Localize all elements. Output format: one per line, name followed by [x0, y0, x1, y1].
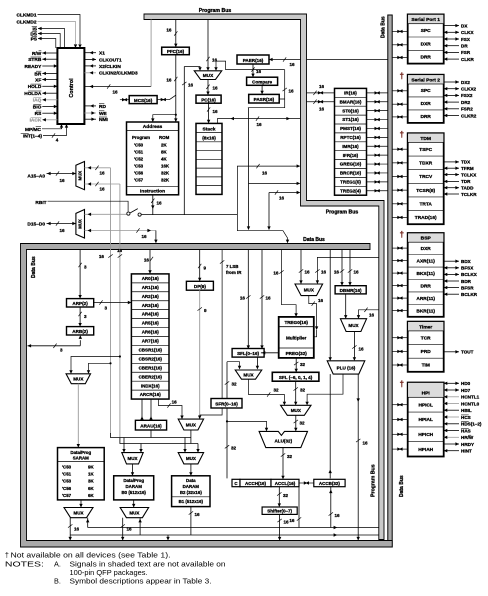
svg-text:HPI: HPI — [422, 391, 431, 397]
mux SARAM output MUX — [64, 508, 93, 518]
svg-text:3K: 3K — [88, 479, 94, 484]
signal XF — [42, 79, 57, 81]
svg-text:INT(1–4): INT(1–4) — [23, 133, 42, 139]
signal RS — [42, 112, 57, 114]
wire B0 mux to B0 — [132, 464, 134, 475]
svg-text:16: 16 — [266, 296, 272, 301]
wire shifter drop to bottom band — [279, 535, 281, 540]
svg-text:9K: 9K — [88, 464, 94, 469]
svg-text:'C57: 'C57 — [134, 178, 144, 183]
svg-text:TCSR(8): TCSR(8) — [416, 188, 435, 194]
svg-text:16: 16 — [99, 187, 105, 192]
svg-text:16: 16 — [256, 122, 262, 127]
block Serial Port 2 — [408, 75, 444, 123]
wire data bus to AR file (16) — [149, 250, 151, 274]
svg-text:RD: RD — [99, 104, 106, 110]
register MCS(16) — [129, 96, 157, 104]
svg-text:CBER2(16): CBER2(16) — [139, 374, 163, 379]
svg-text:BFSR: BFSR — [461, 285, 474, 290]
svg-text:16: 16 — [318, 298, 324, 303]
svg-text:32: 32 — [300, 362, 306, 367]
svg-text:'C52: 'C52 — [134, 157, 144, 162]
svg-text:3: 3 — [105, 306, 108, 311]
wire mux to PLU (16) — [353, 332, 355, 360]
svg-text:4: 4 — [56, 138, 59, 143]
svg-text:3: 3 — [60, 348, 63, 353]
svg-text:AR1(16): AR1(16) — [142, 285, 160, 290]
svg-text:HRDY: HRDY — [461, 442, 474, 447]
svg-text:TCR: TCR — [421, 335, 431, 341]
svg-text:FSX: FSX — [461, 37, 471, 42]
svg-text:AR6(16): AR6(16) — [142, 330, 160, 335]
wire program bus to MUX (16) — [207, 20, 209, 71]
svg-text:ST1(16): ST1(16) — [342, 117, 359, 122]
svg-text:CLKX: CLKX — [461, 30, 474, 35]
wire Instruction output (16) — [152, 195, 154, 215]
alu ARAU(16) — [135, 420, 166, 430]
svg-text:Control: Control — [69, 78, 75, 98]
svg-text:TDX: TDX — [461, 160, 471, 165]
svg-text:16: 16 — [262, 171, 268, 176]
wire PFC down to Address (16) — [175, 55, 177, 122]
svg-text:MCS(16): MCS(16) — [134, 98, 153, 103]
svg-text:'C51: 'C51 — [134, 150, 144, 155]
wire drops into B0 mux — [123, 438, 125, 452]
wire data bus drop to TREG0 (16) — [282, 250, 297, 317]
svg-text:Data Bus: Data Bus — [399, 475, 405, 497]
svg-text:PMST(16): PMST(16) — [340, 126, 361, 131]
svg-text:32K: 32K — [161, 178, 170, 183]
signals BSP: BDX BFSX BCLKX BDR BFSR BCLKR — [444, 260, 459, 262]
svg-text:DP(9): DP(9) — [194, 284, 206, 289]
svg-text:16: 16 — [144, 258, 150, 263]
svg-text:HCNTL1: HCNTL1 — [461, 395, 480, 400]
svg-text:16: 16 — [319, 107, 325, 112]
svg-text:DARAM: DARAM — [183, 484, 200, 489]
svg-text:32K: 32K — [161, 171, 170, 176]
svg-text:16: 16 — [279, 196, 285, 201]
bus CPU ring: left Data Bus band, top band, bottom band — [21, 244, 393, 548]
svg-text:FSR2: FSR2 — [461, 107, 473, 112]
wire ARAU output — [150, 430, 152, 438]
wire B2 mux to B2 — [190, 464, 192, 475]
signal NMI — [84, 118, 96, 120]
register SFL(0-16) — [232, 349, 264, 358]
svg-text:MP/MC: MP/MC — [25, 127, 42, 133]
svg-text:TIM: TIM — [422, 363, 430, 369]
svg-text:16: 16 — [289, 518, 295, 523]
wire XMUX data input 1 to switch (shaded) — [85, 213, 127, 215]
wire ACC output down (16) — [298, 487, 300, 528]
svg-text:IMR(16): IMR(16) — [342, 144, 359, 149]
wire SFL(-6,0,1,4) to ALU mux (32) — [295, 381, 297, 404]
block Address / Program ROM table — [127, 122, 179, 195]
svg-text:HD0: HD0 — [461, 381, 471, 386]
svg-text:CLKMD2: CLKMD2 — [17, 19, 37, 25]
wire DP down to data RAM mux (9) — [199, 290, 201, 418]
svg-text:7 LSB: 7 LSB — [226, 264, 238, 269]
svg-text:HCNTL0: HCNTL0 — [461, 401, 480, 406]
svg-text:BKR(11): BKR(11) — [416, 308, 435, 314]
svg-text:HPICH: HPICH — [418, 432, 433, 438]
wire address distribution line A — [111, 433, 191, 438]
svg-text:A.: A. — [54, 559, 61, 568]
svg-text:†: † — [400, 380, 405, 389]
svg-text:BR: BR — [34, 71, 41, 77]
svg-text:'C57: 'C57 — [62, 493, 72, 498]
wire PLU column down to bottom data bus (16) — [357, 374, 359, 540]
wire PC to Stack (16) — [208, 103, 210, 122]
svg-text:ARR(11): ARR(11) — [416, 296, 435, 302]
block TREG0 / Multiplier / PREG — [279, 317, 314, 358]
svg-text:X2/CLKIN: X2/CLKIN — [99, 64, 121, 70]
svg-text:'C51: 'C51 — [62, 472, 72, 477]
svg-text:HPIAH: HPIAH — [418, 447, 433, 453]
svg-text:DRR: DRR — [420, 55, 431, 61]
svg-text:16: 16 — [305, 270, 311, 275]
svg-text:TOUT: TOUT — [461, 350, 474, 355]
svg-text:BMAR(16): BMAR(16) — [340, 99, 362, 104]
svg-text:DXR: DXR — [421, 246, 432, 252]
svg-text:BKX(11): BKX(11) — [416, 271, 435, 277]
svg-text:STRB: STRB — [28, 57, 42, 63]
memory Data/Prog SARAM table — [58, 448, 105, 500]
svg-text:SFL(0–16): SFL(0–16) — [237, 351, 259, 356]
signal X1 — [84, 52, 96, 54]
mux XMUX (data) — [76, 210, 85, 239]
svg-text:ACCH(16): ACCH(16) — [245, 481, 267, 486]
svg-text:PLU (16): PLU (16) — [337, 366, 356, 371]
wire program bus to mux (16) — [359, 310, 379, 318]
svg-text:DRR: DRR — [420, 283, 431, 289]
svg-text:PRD: PRD — [421, 349, 432, 355]
svg-text:ARP(2): ARP(2) — [72, 301, 88, 306]
svg-text:Not available on all devices (: Not available on all devices (see Table … — [11, 550, 171, 559]
svg-text:NOTES:: NOTES: — [5, 559, 44, 568]
svg-text:'C56: 'C56 — [62, 486, 72, 491]
svg-text:HBIL: HBIL — [461, 408, 472, 413]
wire ARP to ARB (3) — [79, 307, 81, 326]
svg-text:16: 16 — [166, 28, 172, 33]
svg-text:TRCV: TRCV — [419, 174, 433, 180]
register PASR(16) — [249, 94, 280, 103]
register PFC(16) — [162, 47, 190, 55]
wire data bus to DP (9) — [199, 250, 201, 281]
svg-text:AR4(16): AR4(16) — [142, 312, 160, 317]
mux ALU input MUX — [281, 405, 311, 415]
svg-text:SARAM: SARAM — [73, 455, 89, 460]
svg-text:MUX: MUX — [186, 456, 196, 461]
svg-text:16: 16 — [363, 441, 369, 446]
block Stack (8x16) — [196, 123, 222, 194]
mux B2 address mux — [178, 453, 203, 464]
wire Shifter output to write bus (16) — [279, 514, 281, 535]
svg-text:HOLD: HOLD — [28, 84, 42, 90]
svg-text:SPC: SPC — [421, 28, 431, 34]
svg-text:TRAD(16): TRAD(16) — [415, 215, 437, 221]
wire data bus drop to SFL(0-16) (16) — [247, 250, 249, 349]
wire 7 LSB from IR to data address mux — [200, 250, 222, 416]
svg-text:'C53: 'C53 — [134, 164, 144, 169]
signal RD — [84, 105, 96, 107]
signal IACK (shaded) — [42, 119, 57, 121]
wire data bus drop to DBMR b (16) — [349, 250, 351, 285]
wire ARP to AR file (3) — [94, 302, 131, 304]
wire SFR junction to ALU left input — [227, 421, 267, 430]
svg-text:PC(16): PC(16) — [201, 97, 216, 102]
svg-text:DRR: DRR — [420, 114, 431, 120]
svg-text:1K: 1K — [88, 472, 94, 477]
svg-text:TDM: TDM — [420, 136, 431, 142]
bus Program Bus (top bar, left drop, mid wrap, right vertical) — [144, 14, 384, 540]
svg-text:Instruction: Instruction — [140, 189, 165, 195]
svg-text:'C50: 'C50 — [134, 143, 144, 148]
svg-text:16: 16 — [99, 171, 105, 176]
svg-text:Program: Program — [132, 135, 150, 140]
svg-text:ARAU(16): ARAU(16) — [140, 424, 162, 429]
svg-text:16: 16 — [289, 89, 295, 94]
svg-text:8K: 8K — [161, 150, 167, 155]
svg-text:16: 16 — [166, 78, 172, 83]
svg-text:ARCR(16): ARCR(16) — [140, 392, 162, 397]
svg-text:DXR: DXR — [421, 101, 432, 107]
svg-text:6K: 6K — [88, 486, 94, 491]
wire ALU to ACC (32) — [282, 448, 284, 479]
svg-text:Stack: Stack — [202, 126, 215, 132]
svg-text:ACCB(32): ACCB(32) — [319, 481, 341, 486]
svg-text:Compare: Compare — [252, 79, 272, 84]
svg-text:TRTA: TRTA — [419, 201, 432, 207]
memory Data DARAM B2/B1 — [172, 476, 210, 507]
svg-text:GREG(16): GREG(16) — [340, 162, 362, 167]
svg-text:DX2: DX2 — [461, 80, 470, 85]
svg-text:TDXR: TDXR — [419, 161, 433, 167]
svg-text:HPIAL: HPIAL — [418, 417, 432, 423]
svg-text:SPC: SPC — [421, 88, 431, 94]
svg-text:R/W: R/W — [32, 51, 42, 57]
svg-text:3: 3 — [84, 265, 87, 270]
wire ARB to data bus (3) — [28, 345, 81, 347]
signal WE (shaded wire) — [84, 112, 96, 114]
signal HOLD — [42, 85, 57, 87]
wire PASR feedback loop (right vertical + bottom) — [248, 70, 285, 108]
wire SFL(0-16) to mux (right input) — [256, 357, 258, 369]
svg-text:Data/Prog: Data/Prog — [70, 450, 91, 455]
wires data bus to peripherals (double arrows) — [392, 30, 408, 32]
svg-text:A15–A0: A15–A0 — [27, 173, 45, 179]
mux B0 output MUX — [120, 508, 148, 518]
svg-text:TADD: TADD — [461, 186, 474, 191]
signals Serial Port 2: DX2 CLKX2 FSX2 DR2 FSR2 CLKR2 — [444, 81, 459, 83]
svg-text:HD7: HD7 — [461, 388, 471, 393]
svg-text:TREG1(5): TREG1(5) — [340, 179, 361, 184]
register ARP(2) — [67, 299, 94, 307]
wire instruction to data bus band (lower path) — [237, 215, 287, 243]
svg-text:HCS: HCS — [461, 415, 471, 420]
wire data bus drop to SFL(0-16) right (16) — [261, 250, 263, 349]
bus Data Bus (right vertical bar) — [388, 15, 392, 547]
svg-text:BSP: BSP — [421, 236, 432, 242]
svg-text:TDR: TDR — [461, 179, 471, 184]
svg-text:Serial Port 2: Serial Port 2 — [411, 77, 440, 83]
svg-text:MUX: MUX — [78, 171, 83, 181]
wire TREG mux output to Multiplier (16) — [309, 296, 317, 330]
wire data bus to PLU left input — [329, 250, 331, 360]
wire write bus up into B0 mux — [139, 518, 141, 535]
svg-text:from IR: from IR — [226, 270, 242, 275]
wire program bus to TREG mux input 2 (16) — [317, 257, 378, 283]
svg-text:4K: 4K — [161, 157, 167, 162]
wire XMUX addr input 1 (shaded) — [85, 167, 111, 169]
svg-text:AR7(16): AR7(16) — [142, 339, 160, 344]
register SFR(0-16) — [211, 399, 242, 409]
signal IAQ (shaded) — [42, 99, 57, 101]
mux SFL mux — [235, 370, 262, 379]
wire program bus to IR (16) — [307, 92, 335, 94]
block TDM serial port — [408, 133, 444, 224]
wire SFL mux output to ALU mux (32) — [249, 379, 285, 404]
svg-text:ACCL(16): ACCL(16) — [275, 481, 296, 486]
svg-text:Data: Data — [186, 478, 196, 483]
svg-text:32: 32 — [231, 446, 237, 451]
wire Compare to PASR — [261, 85, 263, 93]
svg-text:MUX: MUX — [291, 408, 302, 413]
svg-text:ROM: ROM — [159, 135, 170, 140]
svg-text:AR5(16): AR5(16) — [142, 321, 160, 326]
wire B0 to mux — [133, 500, 135, 507]
wire XMUX data input 2 to data bus (shaded) — [85, 230, 156, 232]
svg-text:16: 16 — [334, 270, 340, 275]
svg-text:32: 32 — [300, 388, 306, 393]
svg-text:MUX: MUX — [73, 376, 84, 381]
mux DBMR/PLU MUX — [340, 319, 366, 332]
svg-text:Data/Prog: Data/Prog — [123, 478, 144, 483]
memory Data/Prog DARAM B0 — [114, 476, 154, 500]
svg-text:Multiplier: Multiplier — [286, 336, 307, 341]
svg-text:HPICL: HPICL — [418, 402, 432, 408]
svg-text:MUX: MUX — [203, 73, 214, 78]
svg-text:32: 32 — [287, 454, 293, 459]
wire mux output down to SARAM (shaded) — [77, 384, 79, 447]
svg-text:16: 16 — [59, 228, 65, 233]
svg-text:'C50: 'C50 — [62, 464, 72, 469]
svg-text:16: 16 — [195, 512, 201, 517]
svg-text:AR3(16): AR3(16) — [142, 303, 160, 308]
svg-text:16: 16 — [213, 86, 219, 91]
signals HPI: HD0 HD7 HCNTL1 HCNTL0 HBIL HCS HDS(1-2) HAS HR/W HRDY HINT — [444, 382, 459, 384]
svg-text:16: 16 — [290, 62, 296, 67]
register C / ACCH(16) / ACCL(16) — [232, 479, 240, 486]
wire instruction path from switch — [141, 214, 237, 216]
svg-text:AR2(16): AR2(16) — [142, 294, 160, 299]
svg-text:16K: 16K — [161, 164, 170, 169]
alu ALU(32) — [259, 431, 307, 447]
svg-text:'C53: 'C53 — [62, 479, 72, 484]
svg-text:PAER(16): PAER(16) — [243, 58, 264, 63]
svg-text:MUX: MUX — [74, 510, 84, 515]
shifter SFL (-6, 0, 1, 4) — [272, 372, 319, 381]
wire write bus drop to bottom band — [167, 535, 169, 540]
block Timer — [408, 322, 444, 372]
svg-text:16: 16 — [240, 296, 246, 301]
alu PLU(16) — [327, 361, 365, 374]
wire MUX to PC (16) — [207, 80, 209, 95]
wire data bus drop to DBMR a (16) — [341, 250, 343, 285]
svg-text:16: 16 — [273, 271, 279, 276]
svg-text:TSPC: TSPC — [419, 147, 432, 153]
svg-text:B.: B. — [54, 576, 61, 585]
register file AR0-AR7/CBSR/CBER/INDX/ARCR — [131, 274, 169, 399]
svg-text:9: 9 — [204, 266, 207, 271]
register PAER(16) — [237, 55, 269, 64]
svg-text:16: 16 — [188, 83, 194, 88]
svg-text:ST0(16): ST0(16) — [342, 108, 359, 113]
mux ARB/AR bus MUX — [66, 374, 91, 384]
wire ACCB bottom feed (16) — [330, 487, 332, 528]
svg-text:D15–D0: D15–D0 — [27, 222, 45, 228]
signal CLKIN2/CLKMD3 (shaded wire) — [84, 72, 96, 74]
wire SARAM mux to data bus (16) — [69, 518, 71, 540]
svg-text:†: † — [400, 130, 405, 139]
svg-text:Program Bus: Program Bus — [371, 464, 377, 497]
svg-text:16: 16 — [112, 90, 118, 95]
svg-text:CBSR2(16): CBSR2(16) — [139, 356, 163, 361]
wire internal data bus vertical 2 (shaded) — [119, 184, 121, 439]
signal X2/CLKIN — [84, 65, 96, 67]
svg-text:CBSR1(16): CBSR1(16) — [139, 347, 163, 352]
svg-text:B2 (32x16): B2 (32x16) — [180, 490, 203, 495]
svg-text:ARB(2): ARB(2) — [72, 329, 88, 334]
svg-text:BIO: BIO — [33, 104, 42, 110]
svg-text:16: 16 — [359, 347, 365, 352]
svg-text:TREG2(4): TREG2(4) — [340, 188, 361, 193]
wire Control to program bus (16) — [84, 86, 151, 88]
svg-text:32: 32 — [274, 388, 280, 393]
register PC(16) — [196, 95, 221, 103]
wire loop branch into program bus band — [249, 182, 300, 184]
wire ACC to Shifter (32) — [278, 487, 280, 507]
svg-text:DX: DX — [461, 23, 468, 28]
wire PLU-ACCB feedback — [329, 374, 331, 478]
wire MCS left connection — [120, 99, 129, 101]
register DP(9) — [186, 281, 213, 290]
signal BIO — [42, 106, 57, 108]
svg-text:Symbol descriptions appear in: Symbol descriptions appear in Table 3. — [70, 576, 212, 585]
svg-text:AR0(16): AR0(16) — [142, 276, 160, 281]
svg-text:XF: XF — [35, 77, 41, 83]
svg-text:Serial Port 1: Serial Port 1 — [411, 17, 440, 23]
svg-text:HR/W: HR/W — [461, 435, 474, 440]
svg-text:(8x16): (8x16) — [202, 136, 216, 141]
wire stack to program bus (16) — [217, 119, 300, 124]
register DBMR(16) — [335, 286, 366, 294]
register ACCB(32) — [314, 479, 345, 486]
wire address distribution line B — [120, 438, 198, 444]
svg-text:MUX: MUX — [304, 288, 315, 293]
svg-text:BCLKX: BCLKX — [461, 272, 478, 277]
svg-text:BCLKR: BCLKR — [461, 292, 478, 297]
svg-text:6K: 6K — [88, 493, 94, 498]
wire internal data bus vertical 1 (shaded) — [110, 168, 112, 434]
svg-text:X1: X1 — [99, 51, 105, 57]
svg-text:†: † — [5, 550, 9, 559]
wire PASR staircase into MUX right input — [216, 61, 285, 70]
svg-text:RS: RS — [35, 111, 42, 117]
svg-text:'C56: 'C56 — [134, 171, 144, 176]
svg-text:DR: DR — [461, 44, 468, 49]
wire data bus to PAER (16), crossing program bus — [307, 59, 388, 61]
svg-text:HOLDA: HOLDA — [24, 91, 42, 97]
